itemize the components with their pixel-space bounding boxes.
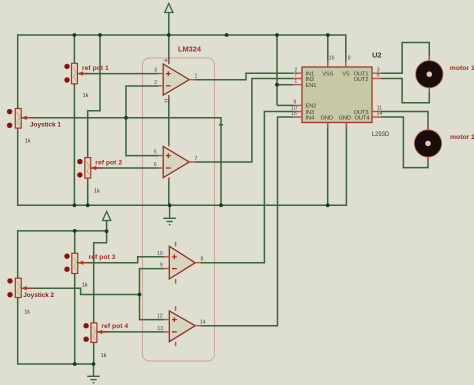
wire ref pot 4 bottom to lower ground [93, 342, 95, 364]
potentiometer Joystick 2 [7, 278, 54, 315]
svg-text:1: 1 [294, 79, 297, 85]
wire rail to EN1 EN2 vertical [276, 35, 278, 105]
wire U1:C output pin 8 to U2 IN3 [201, 112, 294, 263]
wire rail step down to ref pot 2 top [88, 35, 100, 158]
op-amp U1:B [154, 142, 198, 181]
svg-text:12: 12 [157, 314, 163, 320]
potentiometer ref pot 2 [77, 158, 122, 195]
svg-text:OUT2: OUT2 [354, 77, 369, 83]
junction dots ground rail [73, 203, 330, 207]
junction dots lower rail [73, 229, 109, 233]
svg-text:U2: U2 [372, 51, 381, 60]
svg-text:1: 1 [195, 74, 198, 80]
svg-text:10: 10 [157, 251, 163, 257]
wire joystick 2 wiper to junction [21, 288, 139, 294]
junction dots top rail [73, 33, 330, 37]
wire lower V+ rail [18, 230, 107, 232]
wire ref pot 4 wiper to U1:D pin 13 [97, 331, 164, 333]
svg-text:15: 15 [291, 111, 297, 117]
power symbol 2 [103, 212, 111, 221]
svg-text:6: 6 [377, 73, 380, 79]
svg-text:8: 8 [201, 257, 204, 263]
svg-text:motor 1: motor 1 [450, 65, 474, 72]
wire lower rail step down to ref pot 4 top [94, 231, 107, 323]
junction dot EN1 [275, 83, 279, 87]
svg-text:L293D: L293D [372, 132, 390, 138]
svg-text:2: 2 [154, 80, 157, 86]
svg-text:8: 8 [348, 56, 351, 62]
wire lower rail to ref pot 3 top [74, 231, 76, 253]
LM324 package outline box [143, 58, 215, 361]
potentiometer ref pot 3 [64, 253, 115, 288]
wire ref pot 3 wiper to U1:C pin 10 [78, 257, 164, 263]
svg-text:13: 13 [157, 326, 163, 332]
svg-text:OUT4: OUT4 [355, 115, 370, 121]
wire U2 OUT1 to motor 1 top [381, 43, 429, 74]
svg-text:motor 2: motor 2 [450, 134, 474, 141]
wire U2 OUT3 to motor 2 top [381, 112, 428, 130]
motor 1 [416, 56, 474, 93]
wire lower rail to Joystick 2 top [17, 230, 19, 278]
svg-text:EN2: EN2 [306, 104, 317, 110]
wire U1:D output pin 14 to U2 IN4 [201, 117, 294, 326]
wire EN2 branch [277, 104, 293, 106]
ground symbol bottom [87, 364, 100, 383]
svg-text:Joystick 1: Joystick 1 [30, 121, 61, 128]
wire op-amp U1:B bottom to ground rail [168, 178, 170, 206]
ground symbol mid [163, 205, 176, 224]
svg-text:ref pot 3: ref pot 3 [89, 254, 116, 261]
op-amp U1:C [157, 242, 204, 284]
wire rail to ref pot 1 top [73, 35, 75, 64]
potentiometer ref pot 1 [64, 63, 109, 99]
wire op-amp U1:A pin 11 to U1:B top [168, 95, 170, 146]
svg-text:1k: 1k [83, 93, 89, 99]
svg-text:ref pot 4: ref pot 4 [101, 323, 128, 330]
wire joystick 1 wiper across and down to ground rail [22, 118, 221, 206]
op-amp U1:D [157, 306, 206, 346]
wire ref pot 1 bottom to ground rail [73, 84, 75, 206]
svg-text:7: 7 [294, 73, 297, 79]
svg-text:VSS: VSS [322, 72, 333, 78]
IC U2 L293D body [291, 56, 382, 129]
wire ref pot 2 wiper to U1:B pin 6 [91, 167, 159, 169]
power symbol 1 [165, 4, 173, 13]
svg-text:GND: GND [321, 115, 333, 121]
wire ref pot 3 bottom to lower ground [74, 273, 76, 364]
svg-text:GND: GND [339, 115, 351, 121]
svg-text:1k: 1k [24, 309, 30, 315]
wire V+ top rail with VS drop [18, 35, 346, 62]
wire junction to U1:C pin 9 and U1:D pin 12 [140, 269, 165, 320]
wire rail to VSS pin 16 [327, 35, 329, 67]
svg-text:14: 14 [200, 320, 206, 326]
motor 2 [414, 125, 474, 161]
junction dot joystick2 wiper [138, 293, 142, 297]
svg-text:16: 16 [329, 56, 335, 62]
wire EN1 branch [277, 84, 293, 86]
wire tick on wiper vertical [219, 124, 223, 126]
svg-text:4: 4 [164, 59, 170, 62]
potentiometer Joystick 1 [7, 109, 61, 145]
svg-text:5: 5 [154, 150, 157, 156]
wire ref pot 1 wiper to U1:A pin 3 [78, 73, 159, 75]
svg-text:3: 3 [154, 67, 157, 73]
svg-text:1k: 1k [101, 353, 107, 359]
svg-text:9: 9 [160, 263, 163, 269]
svg-text:EN1: EN1 [306, 83, 317, 89]
svg-text:IN2: IN2 [306, 77, 315, 83]
wire ref pot 2 bottom to ground rail [87, 178, 89, 205]
svg-text:1k: 1k [94, 188, 100, 194]
svg-text:7: 7 [195, 156, 198, 162]
wire U1:B output pin 7 to U2 IN2 [195, 79, 293, 163]
junction dot joystick1 wiper [124, 116, 128, 120]
junction dots lower ground [73, 362, 96, 366]
wire ground net: joystick1 bottom, gnd rail, U2 GND pin [18, 123, 347, 206]
svg-text:6: 6 [154, 162, 157, 168]
svg-text:Joystick 2: Joystick 2 [23, 292, 54, 299]
wire U2 GND pin to ground rail [327, 123, 329, 206]
wire U2 OUT4 to motor 2 bottom [381, 117, 428, 168]
op-amp U1:A [154, 59, 197, 103]
wire U1:A output pin 1 to U2 IN1 [195, 73, 293, 80]
potentiometer ref pot 4 [83, 323, 128, 359]
svg-text:VS: VS [342, 72, 350, 78]
svg-text:ref pot 2: ref pot 2 [95, 159, 122, 166]
wire power arrow 1 stem [168, 13, 170, 36]
svg-text:ref pot 1: ref pot 1 [82, 65, 109, 72]
wire power arrow 2 stem [106, 221, 108, 232]
wire rail to op-amp U1:A pin 4 [168, 35, 170, 64]
svg-text:1k: 1k [82, 283, 88, 289]
svg-text:14: 14 [377, 111, 383, 117]
wire joystick1 wiper branch to U1:A pin 2 and U1:B pin 5 [126, 86, 159, 156]
svg-text:9: 9 [293, 100, 296, 106]
wire joystick 2 bottom to lower ground [18, 298, 94, 365]
svg-text:LM324: LM324 [178, 45, 202, 54]
svg-text:IN4: IN4 [306, 115, 315, 121]
svg-text:1k: 1k [25, 139, 31, 145]
wire rail to Joystick 1 top [17, 34, 19, 108]
svg-text:11: 11 [164, 98, 170, 103]
wire U2 OUT2 to motor 1 bottom [381, 79, 429, 103]
